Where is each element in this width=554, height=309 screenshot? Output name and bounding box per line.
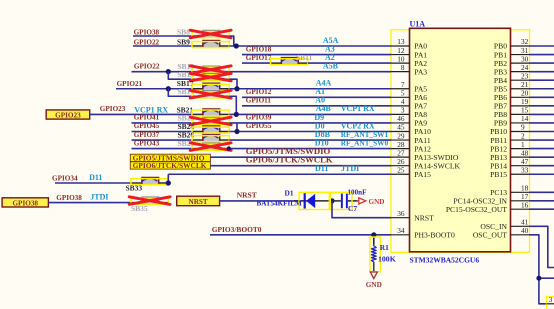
wire GPIO21: [116, 88, 192, 90]
node D0 junction: [234, 129, 239, 134]
pin 26 PA14-SWCLK: [391, 157, 461, 171]
port GPIO23: [46, 110, 89, 120]
svg-text:NRST: NRST: [237, 191, 257, 200]
wire net PB1 to edge: [530, 54, 554, 56]
pin 32 PB0: [494, 37, 530, 51]
pin 45 PA10: [391, 123, 431, 137]
wire GPIO34 to SB33: [55, 182, 131, 184]
svg-text:PC15-OSC32_OUT: PC15-OSC32_OUT: [446, 205, 508, 214]
pin 41 OSC_IN: [480, 218, 529, 232]
wire GPIO22 second: [132, 71, 193, 73]
crystal X1 corner (off-sheet component, pin 3): [547, 295, 554, 309]
pin 17 PC14-OSC32_IN: [453, 192, 529, 206]
svg-text:GPIO12: GPIO12: [246, 88, 272, 96]
solder bridge SB11 (fitted): [271, 58, 308, 65]
wire SWDIO to pin PA13: [210, 156, 391, 158]
svg-text:GPIO45: GPIO45: [134, 122, 160, 130]
svg-text:SB8: SB8: [177, 28, 190, 37]
pin 8 PA3: [391, 63, 427, 77]
svg-text:25: 25: [397, 165, 405, 174]
svg-text:GPIO38: GPIO38: [12, 199, 38, 207]
node SB33 output junction: [166, 180, 171, 185]
svg-text:NRST: NRST: [414, 213, 434, 222]
solder bridge SB26 (fitted): [192, 135, 229, 142]
solder bridge SB25 (not fitted, crossed out): [190, 143, 231, 151]
svg-text:C7: C7: [348, 204, 357, 213]
node GPIO21 junction: [166, 86, 171, 91]
wire net PB9 to edge: [530, 122, 554, 124]
wire GPIO41: [132, 122, 193, 124]
node OSC_OUT junction: [536, 276, 541, 281]
svg-text:R1: R1: [380, 243, 389, 252]
wire RF_ANT_SW0 to pin PA12: [229, 148, 391, 150]
svg-text:D1: D1: [285, 189, 294, 198]
wire net PB11 to edge: [530, 139, 554, 141]
wire OSC_IN: [530, 226, 554, 267]
wire NRST to diode: [220, 200, 299, 202]
svg-text:16: 16: [521, 200, 529, 209]
svg-text:GPIO41: GPIO41: [134, 114, 160, 122]
svg-text:100nF: 100nF: [348, 188, 367, 196]
wire net PB8 to edge: [530, 113, 554, 115]
wire GPIO43: [132, 148, 193, 150]
solder bridge SB15 (not fitted, crossed out): [190, 73, 231, 81]
svg-text:3: 3: [549, 295, 553, 304]
node at SB25 output: [227, 146, 231, 150]
pin 1 PB12: [490, 140, 529, 154]
node BOOT0 junction: [371, 232, 376, 237]
port NRST: [177, 196, 220, 206]
pin 15 PB8: [494, 106, 530, 120]
wire GPIO23 to SB21: [90, 113, 192, 115]
solder bridge SB24 (fitted): [192, 126, 229, 133]
wire GPIO37: [132, 139, 193, 141]
wire SB33 output up to JTDI: [167, 174, 169, 183]
svg-text:PA3: PA3: [414, 67, 427, 76]
svg-text:GND: GND: [366, 281, 382, 289]
pin 28 PA12: [391, 140, 431, 154]
pin 25 PA15: [391, 165, 431, 179]
svg-text:GPIO38: GPIO38: [56, 194, 82, 202]
pin 4 PA7: [391, 97, 427, 111]
pin 30 PB2: [494, 54, 530, 68]
MCU U1A body STM32WBA52CGU6: [410, 28, 511, 252]
svg-text:GPIO17: GPIO17: [246, 54, 272, 62]
svg-text:GPIO6/JTCK/SWCLK: GPIO6/JTCK/SWCLK: [133, 161, 207, 170]
svg-text:GPIO22: GPIO22: [134, 38, 160, 46]
svg-text:BAT54KFILM: BAT54KFILM: [257, 200, 302, 208]
pin 5 PA6: [391, 89, 427, 103]
wire net PB4 to edge: [530, 79, 554, 81]
wire NRST down to pin 36: [332, 201, 391, 218]
svg-text:GND: GND: [369, 198, 385, 206]
svg-text:A5B: A5B: [323, 61, 339, 70]
wire net PC13 to edge: [530, 191, 554, 193]
svg-text:PB15: PB15: [490, 170, 507, 179]
svg-text:GPIO37: GPIO37: [134, 131, 160, 139]
svg-text:GPIO39: GPIO39: [246, 114, 272, 122]
svg-text:33: 33: [521, 165, 529, 174]
pin 18 PC13: [490, 184, 529, 198]
svg-text:GPIO23: GPIO23: [55, 111, 81, 119]
node NRST junction: [329, 198, 334, 203]
svg-text:JTDI: JTDI: [90, 192, 108, 201]
svg-text:40: 40: [521, 226, 529, 235]
pin 34 PH3-BOOT0: [391, 226, 455, 240]
svg-text:GPIO55: GPIO55: [246, 122, 272, 130]
node A4A junction: [234, 86, 239, 91]
wire RF_ANT_SW1 to pin PA11: [229, 139, 391, 141]
pin 14 PB9: [494, 114, 530, 128]
pin 40 OSC_OUT: [473, 226, 530, 240]
svg-text:U1A: U1A: [410, 19, 426, 28]
wire A1 to pin PA6: [242, 96, 391, 98]
wire net PB15 to edge: [530, 173, 554, 175]
wire GPIO38 to SB35: [48, 202, 131, 204]
svg-text:RF_ANT_SW0: RF_ANT_SW0: [341, 138, 389, 147]
svg-text:GPIO21: GPIO21: [117, 80, 143, 88]
svg-text:JTDI: JTDI: [341, 164, 359, 173]
wire net PB13 to edge: [530, 156, 554, 158]
pin 20 PB6: [494, 89, 530, 103]
wire GPIO22 branch down: [168, 72, 192, 80]
svg-text:36: 36: [397, 209, 405, 218]
pin 7 PA5: [391, 80, 427, 94]
svg-text:GPIO18: GPIO18: [246, 45, 272, 53]
pin 10 PA2: [391, 54, 427, 68]
wire net PB5 to edge: [530, 88, 554, 90]
wire net PB0 to edge: [530, 45, 554, 47]
wire SWCLK to pin PA14: [210, 165, 391, 167]
solder bridge SB35 (not fitted, crossed out): [129, 197, 170, 205]
wire A2 left segment: [242, 62, 271, 64]
resistor R1 100K: [370, 235, 381, 272]
svg-text:GPIO6/JTCK/SWCLK: GPIO6/JTCK/SWCLK: [246, 154, 333, 164]
svg-text:SB11: SB11: [296, 53, 313, 62]
solder bridge SB13 (not fitted, crossed out): [190, 66, 231, 74]
wire D9 branch down to D0: [236, 123, 238, 132]
pin 16 PC15-OSC32_OUT: [446, 200, 530, 214]
solder bridge SB9 (fitted): [192, 41, 229, 48]
wire GPIO22: [133, 45, 192, 47]
wire OSC_OUT branch to edge: [539, 277, 554, 279]
pin 29 PA11: [391, 131, 431, 145]
svg-text:PH3-BOOT0: PH3-BOOT0: [414, 231, 455, 240]
svg-text:GPIO23: GPIO23: [100, 105, 126, 113]
diode D1 BAT54KFILM: [294, 192, 332, 209]
wire A4B to pin PA8: [229, 113, 391, 115]
wire BOOT0 down to R1: [373, 235, 375, 244]
wire A2 to pin PA2: [308, 62, 391, 64]
svg-text:8: 8: [401, 63, 405, 72]
port GPIO38: [2, 198, 48, 208]
wire GPIO21 branch down: [168, 89, 192, 97]
solder bridge SB8 (not fitted, crossed out): [190, 30, 231, 38]
wire A3 to pin PA1: [242, 54, 391, 56]
svg-text:STM32WBA52CGU6: STM32WBA52CGU6: [410, 256, 480, 265]
wire A4A to pin PA5: [229, 88, 391, 90]
capacitor C7 100nF: [330, 192, 358, 209]
svg-text:GPIO22: GPIO22: [134, 63, 160, 71]
wire net PB10 to edge: [530, 131, 554, 133]
wire net PC15-OSC32_OUT to edge: [530, 208, 554, 210]
wire OSC_OUT: [530, 235, 547, 304]
op-amp U1A outer pin boundary (yellow): [391, 30, 530, 253]
pin 21 PB5: [494, 80, 530, 94]
svg-text:GPIO11: GPIO11: [246, 97, 272, 105]
svg-text:NRST: NRST: [189, 198, 208, 206]
wire JTDI to pin PA15: [168, 173, 391, 175]
wire SB8 output down to A5A: [229, 36, 236, 46]
wire net PB3 to edge: [530, 71, 554, 73]
svg-text:SB35: SB35: [131, 204, 148, 213]
wire GPIO38: [133, 35, 192, 37]
solder bridge SB23 (not fitted, crossed out): [190, 117, 231, 125]
svg-text:VCP1 RX: VCP1 RX: [341, 104, 375, 113]
node GPIO22 junction: [166, 69, 171, 74]
pin 2 PB11: [490, 131, 529, 145]
svg-text:D11: D11: [89, 173, 102, 182]
wire SB16 output down to A4B: [229, 96, 236, 114]
pin 31 PB1: [494, 46, 530, 60]
svg-text:GPIO34: GPIO34: [52, 174, 78, 182]
solder bridge SB21 (fitted): [192, 109, 229, 116]
pin 33 PB15: [490, 165, 529, 179]
wire A0 to pin PA7: [242, 105, 391, 107]
wire A5B to pin PA3: [229, 71, 391, 73]
svg-text:OSC_OUT: OSC_OUT: [473, 231, 508, 240]
pin 3 PA8: [391, 106, 427, 120]
wire GPIO3/BOOT0 to pin 34: [210, 234, 391, 236]
wire net PB12 to edge: [530, 148, 554, 150]
solder bridge SB16 (not fitted, crossed out): [190, 90, 231, 98]
port GPIO5/JTMS/SWDIO (yellow label box): [130, 153, 210, 162]
svg-text:SB9: SB9: [177, 38, 190, 47]
pin 23 PB4: [494, 71, 530, 85]
wire A5A to pin PA0: [229, 45, 391, 47]
svg-text:PA15: PA15: [414, 170, 431, 179]
wire D0 to pin PA10: [229, 131, 391, 133]
wire net PC14-OSC32_IN to edge: [530, 200, 554, 202]
solder bridge SB33 (fitted): [131, 178, 168, 185]
wire SB15 output down to A4A: [229, 79, 237, 89]
svg-text:D11: D11: [315, 164, 328, 173]
wire D9 to pin PA9: [229, 122, 391, 124]
pin 13 PA0: [391, 37, 427, 51]
svg-text:GPIO3/BOOT0: GPIO3/BOOT0: [212, 225, 262, 234]
pin 47 PB14: [490, 157, 529, 171]
wire net PB2 to edge: [530, 62, 554, 64]
pin 24 PB3: [494, 63, 530, 77]
solder bridge SB17 (fitted): [192, 83, 229, 90]
wire net PB7 to edge: [530, 105, 554, 107]
node A4B junction: [234, 112, 239, 117]
wire net PB6 to edge: [530, 96, 554, 98]
node A5A junction: [234, 43, 239, 48]
svg-text:100K: 100K: [378, 255, 396, 264]
pin 12 PA1: [391, 46, 427, 60]
pin 9 PB10: [490, 123, 529, 137]
pin 48 PB13: [490, 148, 529, 162]
wire GPIO45: [132, 131, 193, 133]
pin 46 PA9: [391, 114, 427, 128]
port GPIO6/JTCK/SWCLK (yellow label box): [130, 161, 210, 170]
wire net PB14 to edge: [530, 165, 554, 167]
power port GND (below R1): [366, 272, 382, 289]
pin 36 NRST: [391, 209, 434, 223]
svg-text:34: 34: [397, 226, 405, 235]
svg-text:GPIO43: GPIO43: [134, 139, 160, 147]
power port GND (right of C7): [359, 198, 385, 206]
pin 19 PB7: [494, 97, 530, 111]
pin 27 PA13-SWDIO: [391, 148, 459, 162]
svg-text:GPIO38: GPIO38: [134, 28, 160, 36]
